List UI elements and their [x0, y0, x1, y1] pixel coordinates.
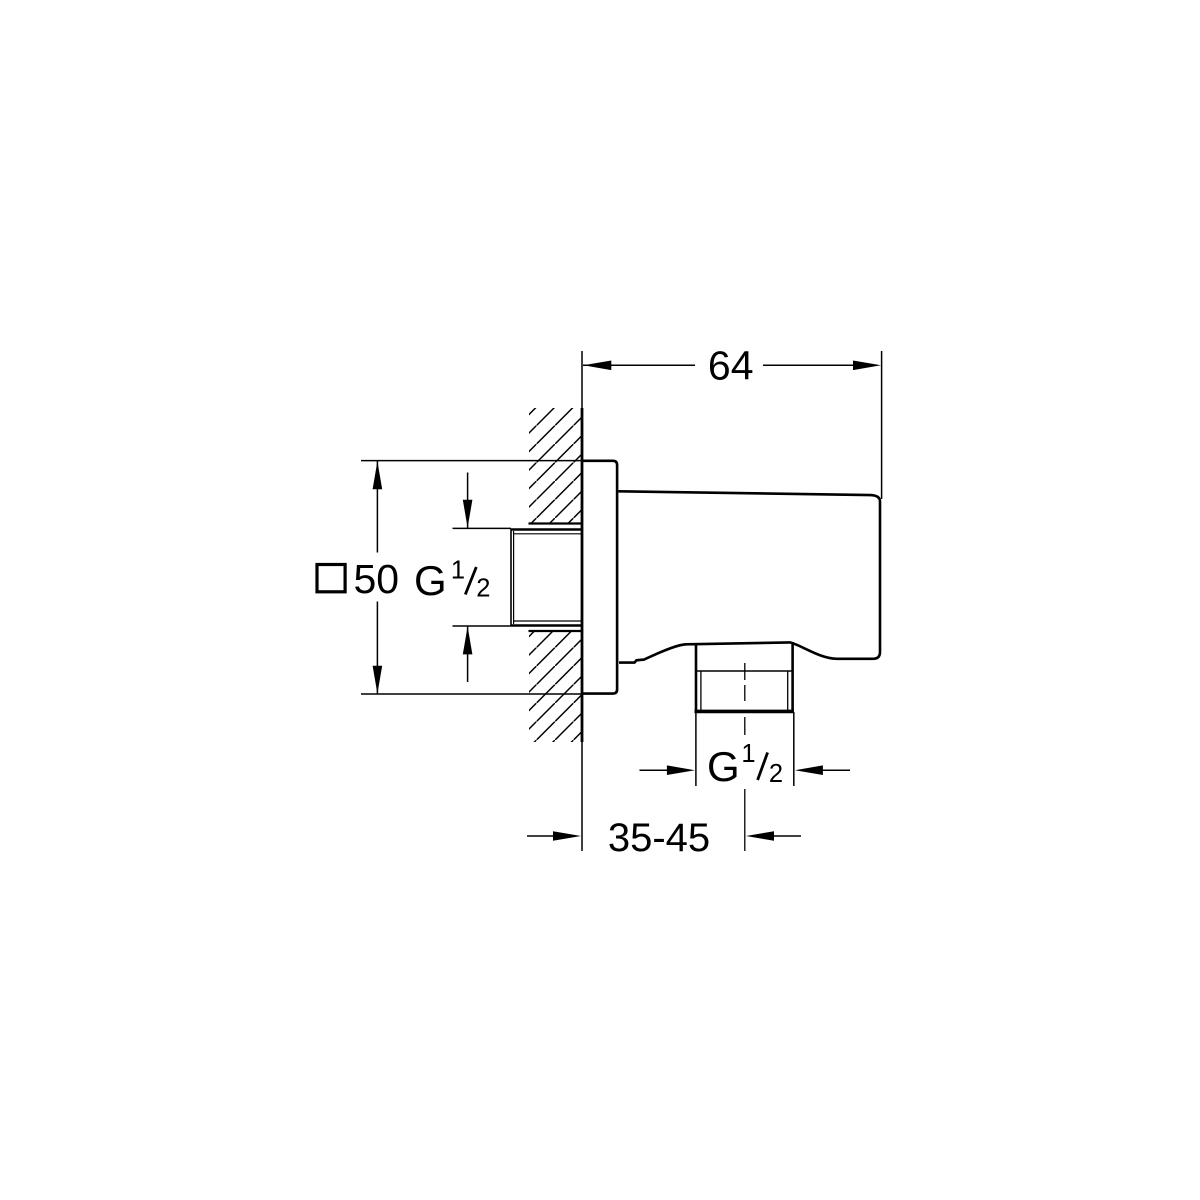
outlet fraction slash — [758, 753, 768, 781]
outlet dim left arrow — [667, 765, 695, 775]
svg-text:35-45: 35-45 — [608, 816, 710, 860]
wall bore edge top — [529, 522, 584, 524]
outlet dim line left — [640, 769, 669, 771]
dim 50 line lower — [376, 602, 378, 695]
inlet dim bottom extension line — [453, 625, 512, 627]
inlet dim bottom arrow line — [467, 626, 469, 682]
svg-text:2: 2 — [769, 760, 783, 788]
outlet thread end thick line — [695, 710, 795, 714]
dim 64 line left — [583, 364, 695, 366]
svg-text:G: G — [414, 557, 447, 604]
flange escutcheon — [583, 461, 617, 694]
inlet thread G1/2 outline — [511, 529, 582, 626]
svg-text:64: 64 — [708, 343, 754, 389]
inlet dim top arrow — [463, 500, 473, 528]
dim 64 arrow right — [853, 361, 881, 371]
outlet left edge — [695, 644, 698, 712]
wall bore edge bottom — [529, 630, 584, 632]
square symbol — [317, 565, 345, 592]
svg-text:2: 2 — [476, 575, 490, 603]
dim 50 arrow bottom — [373, 666, 383, 694]
svg-text:1: 1 — [451, 557, 465, 585]
svg-text:G: G — [707, 743, 740, 790]
inlet dim top extension line — [453, 527, 512, 529]
wall hatching upper — [529, 408, 582, 524]
inlet dim bottom arrow — [463, 626, 473, 654]
outlet centerline — [744, 663, 746, 851]
dim 35-45 right arrow — [746, 831, 774, 841]
svg-text:50: 50 — [353, 556, 399, 602]
outlet dim right arrow — [795, 765, 823, 775]
dim 35-45 line left — [527, 835, 556, 837]
inlet fraction slash — [465, 567, 476, 595]
dim 50 arrow top — [373, 461, 383, 489]
inlet thread minor-diameter lines — [514, 531, 582, 624]
outlet dim line right — [822, 769, 850, 771]
outlet dim left extension line — [695, 712, 697, 786]
wall hatching lower — [529, 631, 582, 742]
body outline — [618, 491, 880, 662]
dim 50 line upper — [376, 461, 378, 553]
dim 64 line right — [763, 364, 854, 366]
inlet dim top arrow line — [467, 473, 469, 529]
outlet dim right extension line — [793, 712, 795, 786]
outlet thread minor lines — [700, 671, 702, 710]
outlet thread start line — [696, 670, 793, 672]
dim 35-45 left arrow — [553, 831, 581, 841]
dim 64 arrow left — [583, 361, 611, 371]
svg-text:1: 1 — [741, 740, 755, 768]
dim 50 top extension line — [361, 460, 583, 462]
outlet right edge — [791, 642, 794, 712]
dim 50 bottom extension line — [361, 693, 583, 695]
dim 64 right extension line — [881, 351, 883, 499]
dim 35-45 line right — [772, 835, 801, 837]
wall face line — [581, 351, 583, 851]
